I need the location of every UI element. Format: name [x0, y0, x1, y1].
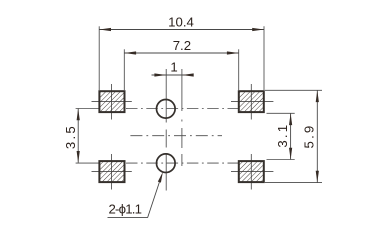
svg-text:10.4: 10.4 [168, 15, 194, 30]
svg-text:2-ϕ1.1: 2-ϕ1.1 [109, 202, 142, 217]
svg-text:5.9: 5.9 [301, 124, 316, 149]
svg-text:7.2: 7.2 [173, 38, 191, 53]
svg-text:3.5: 3.5 [63, 124, 78, 149]
svg-text:1: 1 [170, 60, 177, 75]
svg-text:3.1: 3.1 [275, 123, 290, 148]
